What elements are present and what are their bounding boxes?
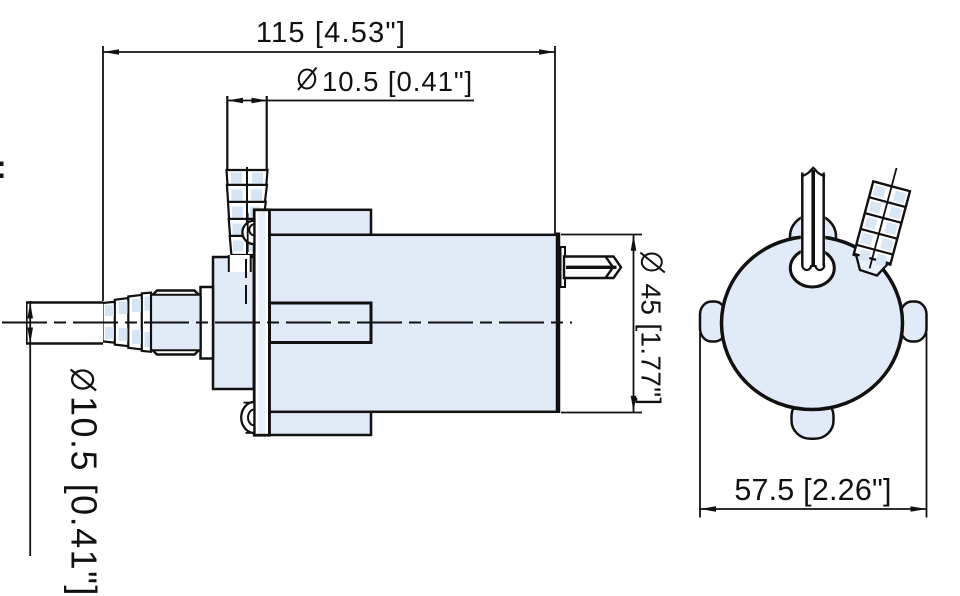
dimension 115 lines <box>103 51 555 53</box>
edge mark dots <box>0 162 4 167</box>
motor shaft <box>564 257 621 279</box>
label phi 45 [1.77"] rotated <box>635 253 666 406</box>
dimension phi10.5 left lines <box>29 301 31 556</box>
main centerline <box>2 322 572 324</box>
angled barb fitting (end view) <box>850 163 915 278</box>
pump housing top cap <box>270 210 372 235</box>
main circular body <box>722 237 903 410</box>
washer collar <box>201 287 214 359</box>
inlet bore <box>790 249 834 287</box>
flange screw top <box>242 221 254 245</box>
svg-text:45 [1.77"]: 45 [1.77"] <box>635 284 666 406</box>
motor body <box>270 235 559 412</box>
label phi 10.5 [0.41"] top <box>298 66 473 97</box>
right ear lobe <box>901 302 927 342</box>
outlet fitting centerline <box>246 167 248 255</box>
svg-text:115 [4.53"]: 115 [4.53"] <box>256 17 406 49</box>
svg-text:10.5 [0.41"]: 10.5 [0.41"] <box>64 396 105 596</box>
outlet fitting tube <box>227 96 268 170</box>
outlet tube (end view) <box>801 169 825 272</box>
motor shaft boss <box>561 247 566 287</box>
motor end cap thick edge <box>556 233 561 414</box>
inlet hose barb rings <box>103 293 152 352</box>
pump head block <box>213 257 254 389</box>
hidden bore line <box>245 259 247 306</box>
dimension 57.5 lines <box>699 333 701 518</box>
left ear lobe <box>700 302 726 342</box>
svg-text:57.5 [2.26"]: 57.5 [2.26"] <box>734 473 891 507</box>
outlet fitting neck counterbore <box>228 255 252 272</box>
mounting flange plate <box>254 210 269 435</box>
inlet tube <box>26 302 103 344</box>
outlet fitting barb rings <box>227 170 268 255</box>
motor slot recess <box>270 303 372 343</box>
pump housing bottom skirt <box>270 412 372 435</box>
svg-text:10.5 [0.41"]: 10.5 [0.41"] <box>322 66 473 97</box>
shaft centerline thick <box>566 266 617 269</box>
top boss <box>790 215 836 259</box>
dimension phi45 lines <box>561 234 642 236</box>
hex nut <box>151 291 201 355</box>
label phi 10.5 [0.41"] rotated <box>64 370 105 596</box>
flange screw bottom <box>241 402 254 433</box>
dimension phi10.5 top lines <box>227 100 474 102</box>
bottom lobe <box>792 398 834 439</box>
